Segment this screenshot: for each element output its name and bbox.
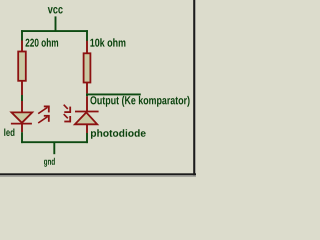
pin: photodiode bottom lead <box>86 124 88 133</box>
resistor R1 220 ohm body <box>18 52 26 81</box>
window border bottom <box>0 173 196 175</box>
photodiode incident arrow 2 <box>64 114 71 122</box>
wire: gnd stub vertical <box>53 142 55 154</box>
window border right <box>193 0 195 177</box>
label led <box>4 129 14 137</box>
wire: output tap horizontal <box>86 93 141 95</box>
pin: LED top lead <box>21 101 23 112</box>
LED D1 cathode bar <box>11 123 32 125</box>
label vcc <box>48 7 63 14</box>
LED emission arrow 2 <box>38 115 49 123</box>
photodiode D2 cathode bar <box>75 111 99 113</box>
wire: right junction segment <box>86 93 88 96</box>
wire: right bottom segment <box>86 133 88 143</box>
label photodiode <box>91 129 146 139</box>
photodiode incident arrow 1 <box>64 105 71 113</box>
LED emission arrow 1 <box>38 106 49 114</box>
wire: bottom horizontal rail <box>21 141 88 143</box>
resistor R2 10k ohm body <box>84 53 91 82</box>
pin: R2 top lead <box>86 41 88 54</box>
label gnd <box>44 158 55 167</box>
label 10k ohm <box>90 38 125 46</box>
pin: R1 bottom lead <box>21 81 23 95</box>
photodiode D2 triangle <box>75 112 97 124</box>
wire: left drop to R1 <box>21 30 23 41</box>
pin: R1 top lead <box>21 41 23 52</box>
pin: LED bottom lead <box>21 124 23 133</box>
wire: vcc stub vertical <box>55 16 57 31</box>
pin: R2 bottom lead <box>86 83 88 94</box>
pin: photodiode top lead <box>86 96 88 111</box>
wire: left mid segment <box>21 95 23 101</box>
schematic canvas background <box>0 0 196 177</box>
LED D1 triangle <box>12 112 33 122</box>
wire: left bottom segment <box>21 132 23 143</box>
wire: top horizontal rail <box>21 30 88 32</box>
wire: right drop to R2 <box>86 30 88 41</box>
label 220 ohm <box>26 38 59 46</box>
label Output (Ke komparator) <box>90 96 189 107</box>
